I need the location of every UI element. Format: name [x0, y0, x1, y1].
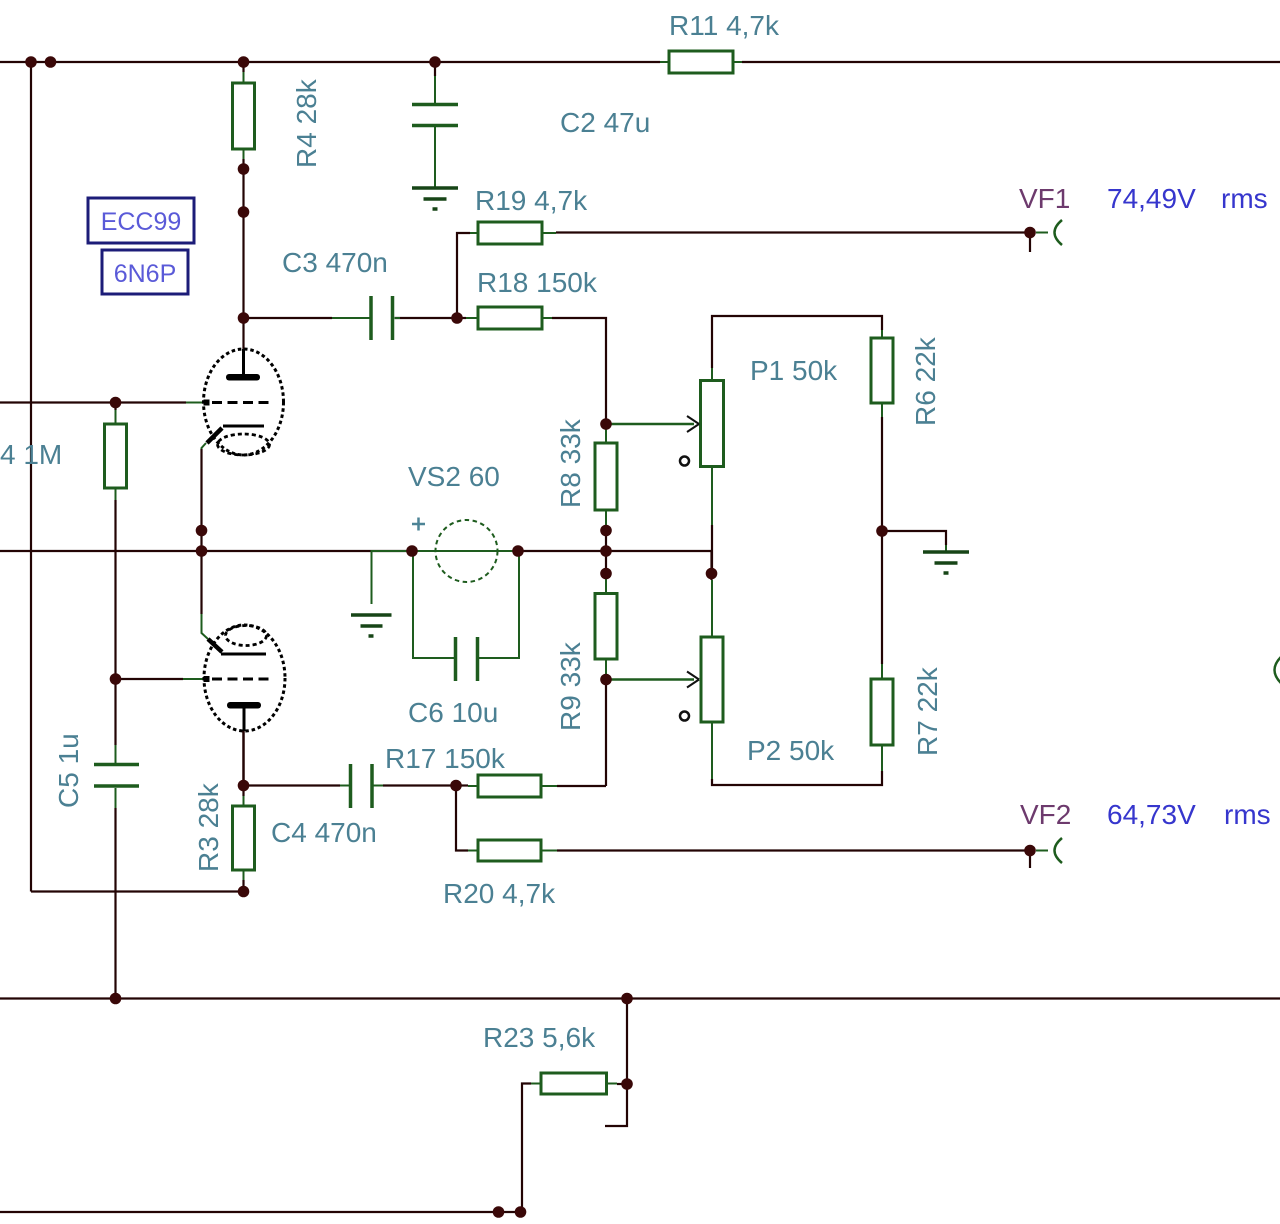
capacitor C2 47u — [412, 105, 458, 126]
svg-text:C2 47u: C2 47u — [560, 107, 650, 138]
wire P2 bottom rail to R7 — [712, 771, 882, 785]
wire R1M to C5 — [114, 500, 116, 745]
wire P2 top stub — [710, 574, 712, 581]
wire R23 left lead dark part — [522, 1084, 531, 1213]
svg-text:ECC99: ECC99 — [101, 208, 182, 236]
wire R9 bottom down to R17 row — [605, 680, 607, 787]
resistor R3 28k — [233, 806, 255, 870]
tube U1 plate lead — [242, 349, 245, 374]
wire ground3 lead — [945, 545, 947, 552]
wire main rail y551 VS2 to pot column — [518, 551, 712, 574]
tube U1 cathode pin stroke — [207, 428, 222, 443]
node dot R17R20 left — [450, 780, 462, 792]
wire cathode column — [200, 449, 202, 614]
svg-text:R7 22k: R7 22k — [912, 666, 943, 756]
tube U1 envelope — [204, 349, 284, 455]
wire R3 column stubs — [242, 786, 244, 892]
node dot grid2 — [110, 673, 122, 685]
wire grid1 row — [0, 401, 186, 403]
wire C2 leads — [434, 76, 436, 188]
wire R6 bottom lead — [881, 403, 883, 417]
wire P1 bottom lead — [711, 467, 713, 525]
tube U1 cathode line — [223, 425, 264, 428]
wire VF2 stub — [1029, 851, 1031, 869]
P2 wiper o marker — [680, 712, 689, 721]
wire R6 bottom to mid dot — [881, 417, 883, 531]
wire R4 lead stubs — [243, 72, 245, 159]
tube U1 grid dashes — [212, 401, 270, 404]
resistor R6 22k — [871, 338, 893, 403]
wire P2 bottom lead — [711, 722, 713, 779]
svg-text:R17 150k: R17 150k — [385, 743, 506, 774]
wire R23 below dot hook — [605, 1084, 627, 1126]
wire bottom rail — [0, 1211, 521, 1213]
node dot R3 bottom — [238, 886, 250, 898]
capacitor C5 1u — [94, 765, 139, 787]
node dot cathode rail — [196, 545, 208, 557]
wire R17 right — [557, 785, 606, 787]
resistor R23 5,6k — [541, 1073, 607, 1094]
box ECC99 — [88, 198, 194, 243]
tube U2 grid dashes — [212, 678, 270, 681]
resistor R20 4,7k — [478, 840, 541, 861]
probe hook VF2 — [1055, 838, 1063, 863]
node dot C2 top — [429, 56, 441, 68]
tube U1 plate bar — [226, 374, 260, 381]
wire VF2 probe lead — [1036, 850, 1048, 852]
P2 wiper arrow — [606, 678, 694, 681]
wire C5 to bottom rail — [114, 808, 116, 999]
wire R20 left drop — [456, 786, 468, 851]
wire R11 lead stubs — [660, 61, 742, 63]
tube U2 plate wire below — [242, 731, 245, 786]
wire R7 top lead — [881, 664, 883, 679]
tube U2 plate bar — [227, 702, 261, 709]
wire R6 top lead — [881, 330, 883, 338]
node dot bottom b — [515, 1206, 527, 1218]
node dot VF1 — [1024, 227, 1036, 239]
resistor R8 33k — [595, 443, 617, 510]
resistor R19 4,7k — [478, 222, 542, 244]
node dot C3 right — [451, 312, 463, 324]
wire R18 right to R8 column — [552, 318, 606, 424]
node dot R4 top — [238, 56, 250, 68]
wire C3 row from plate node — [244, 317, 458, 319]
wire R17 leads — [468, 785, 557, 787]
tube U2 plate lead — [243, 708, 246, 731]
wire R17 left stub — [456, 784, 468, 786]
svg-text:R20 4,7k: R20 4,7k — [443, 878, 556, 909]
wire VF1 stub — [1029, 233, 1031, 253]
svg-text:VF1: VF1 — [1019, 183, 1070, 214]
wire R20 right to VF2 — [557, 849, 1030, 851]
node dot R6R7 mid — [876, 525, 888, 537]
node dot R23 rail — [621, 993, 633, 1005]
box 6N6P — [102, 250, 188, 294]
svg-text:R6 22k: R6 22k — [910, 336, 941, 426]
resistor R9 33k — [595, 594, 617, 660]
wire grid1 lead — [186, 402, 203, 404]
resistor R7 22k — [871, 679, 893, 745]
wire C4 leads — [340, 785, 383, 787]
svg-text:74,49V: 74,49V — [1107, 183, 1196, 214]
node dot cathode upper — [196, 525, 208, 537]
node dot plate2 C4 — [238, 780, 250, 792]
wire R9 leads — [605, 574, 607, 680]
svg-text:R3 28k: R3 28k — [193, 782, 224, 872]
wire R18 lead stubs — [466, 317, 552, 319]
P1 wiper arrow — [606, 423, 694, 426]
node dot C5 rail — [110, 993, 122, 1005]
wire VS2 through lead — [412, 550, 518, 552]
svg-text:R19 4,7k: R19 4,7k — [475, 185, 588, 216]
svg-text:R11 4,7k: R11 4,7k — [669, 10, 780, 41]
capacitor C6 10u — [456, 637, 478, 681]
wire cathode2 lead — [202, 614, 209, 639]
tube U2 cathode pin stroke — [208, 639, 222, 652]
wire P1 top rail to R6 — [712, 316, 882, 368]
wire P2 top lead — [711, 580, 713, 637]
svg-text:rms: rms — [1221, 183, 1268, 214]
svg-text:4 1M: 4 1M — [0, 439, 62, 470]
source VS2 60 — [436, 520, 498, 582]
svg-text:R8 33k: R8 33k — [555, 418, 586, 508]
wire rail y998 — [0, 997, 1280, 999]
wire R7 bottom lead — [881, 745, 883, 771]
wire R1M leads — [115, 410, 117, 500]
wire R4 column — [242, 62, 244, 349]
tube U2 envelope — [204, 625, 285, 731]
wire R1M column upper — [114, 403, 116, 411]
probe hook VF1 — [1055, 220, 1063, 245]
tube U1 heater ellipse — [218, 434, 270, 455]
wire R23 drop from rail — [626, 999, 628, 1085]
svg-text:C3 470n: C3 470n — [282, 247, 388, 278]
probe hook right edge — [1275, 655, 1280, 685]
resistor R1M (4 1M) — [105, 424, 127, 488]
wire R19 left + vertical to C3 node — [457, 233, 470, 318]
wire top rail right of R11 — [742, 61, 1280, 63]
tube U2 heater ellipse — [226, 626, 267, 646]
svg-text:rms: rms — [1224, 799, 1271, 830]
wire left vertical bus — [30, 62, 32, 892]
potentiometer P1 50k — [701, 381, 724, 467]
wire grid2 row — [116, 678, 184, 680]
svg-text:VF2: VF2 — [1020, 799, 1071, 830]
wire R23 leads — [531, 1083, 617, 1085]
tube U2 grid pin — [204, 676, 210, 682]
wire C4 row — [244, 784, 457, 786]
resistor R4 28k — [233, 83, 255, 149]
node dot pot mid — [706, 568, 718, 580]
wire top rail left of R11 — [0, 61, 660, 63]
wire main rail y551 left — [0, 550, 412, 552]
node dot top-left b — [45, 56, 57, 68]
capacitor C3 470n — [371, 296, 393, 340]
ground for VS2 — [351, 615, 392, 636]
node dot top-left a — [25, 56, 37, 68]
potentiometer P2 50k — [701, 637, 723, 722]
svg-text:P2 50k: P2 50k — [747, 735, 835, 766]
svg-text:6N6P: 6N6P — [114, 260, 177, 288]
svg-text:C6 10u: C6 10u — [408, 697, 498, 728]
node dot rail x606 — [600, 545, 612, 557]
ground for C2 — [412, 188, 458, 209]
wire grid2 lead — [183, 678, 203, 680]
svg-text:R23 5,6k: R23 5,6k — [483, 1022, 596, 1053]
wire VF1 probe lead — [1036, 232, 1048, 234]
node dot R4 bottom — [238, 163, 250, 175]
wire VS2 ground drop — [372, 551, 413, 604]
wire mid dot to ground3 — [882, 531, 946, 545]
wire P1 bottom to mid node — [711, 525, 713, 574]
wire R23 right lead dark part — [617, 1083, 627, 1085]
wire R18 left stub — [457, 317, 466, 319]
wire R3 leads — [243, 796, 245, 880]
svg-text:R9 33k: R9 33k — [555, 641, 586, 731]
wire C6 right leg — [479, 551, 519, 658]
node dot R9 bottom wiper — [600, 674, 612, 686]
wire C6 left leg — [413, 551, 454, 658]
node dot VF2 — [1024, 845, 1036, 857]
P1 wiper o marker — [680, 457, 689, 466]
wire R8 leads — [605, 424, 607, 531]
svg-text:VS2 60: VS2 60 — [408, 461, 500, 492]
wire mid dot down to R7 — [881, 531, 883, 664]
wire R19 right to VF1 — [556, 231, 1030, 233]
wire cathode1 lead — [202, 443, 207, 449]
svg-text:64,73V: 64,73V — [1107, 799, 1196, 830]
wire C2 stub — [434, 62, 436, 76]
node dot R8 bottom — [600, 525, 612, 537]
node dot bottom a — [493, 1206, 505, 1218]
VS2 plus sign — [412, 518, 425, 531]
resistor R18 150k — [478, 307, 542, 329]
tube U1 grid pin — [204, 400, 210, 406]
node dot VS2 left — [406, 545, 418, 557]
wire R20 leads — [468, 850, 557, 852]
wire P1 top lead — [711, 368, 713, 381]
wire C5 leads — [115, 745, 117, 808]
node dot R9 top — [600, 568, 612, 580]
node dot grid1 — [110, 397, 122, 409]
svg-text:P1 50k: P1 50k — [750, 355, 838, 386]
node dot plate column mid — [238, 206, 250, 218]
node dot VS2 right — [512, 545, 524, 557]
wire bottom of left bus to R3 — [31, 890, 244, 892]
wire C3 leads — [332, 317, 400, 319]
node dot C3 left — [238, 312, 250, 324]
node dot R23 right — [621, 1078, 633, 1090]
svg-text:R18 150k: R18 150k — [477, 267, 598, 298]
wire R19 lead stubs — [470, 232, 556, 234]
ground right of R6/R7 — [923, 552, 969, 573]
node dot R8 top wiper — [600, 418, 612, 430]
svg-text:R4 28k: R4 28k — [291, 78, 322, 168]
tube U2 cathode line — [221, 653, 266, 656]
svg-text:C5 1u: C5 1u — [53, 733, 84, 808]
wire R8 bottom to R9 top dots — [605, 531, 607, 574]
resistor R11 4,7k — [669, 51, 733, 73]
svg-text:C4 470n: C4 470n — [271, 817, 377, 848]
capacitor C4 470n — [351, 764, 373, 808]
resistor R17 150k — [478, 775, 541, 797]
